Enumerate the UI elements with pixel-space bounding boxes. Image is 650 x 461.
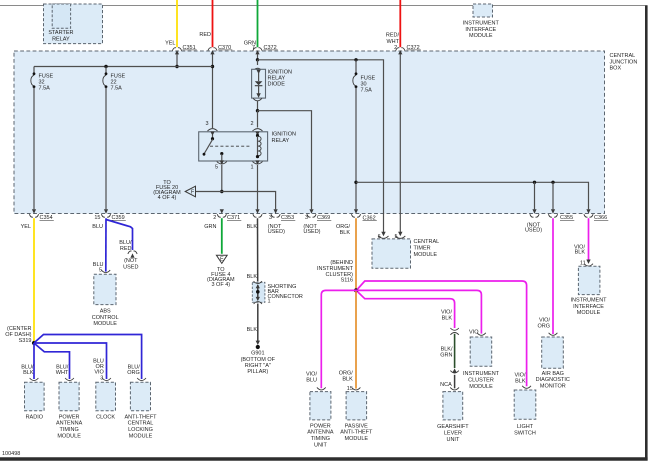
- wire BLU/WHT to power antenna timing module: [35, 344, 70, 379]
- svg-text:RADIO: RADIO: [26, 414, 44, 420]
- svg-text:CONNECTOR: CONNECTOR: [268, 294, 303, 300]
- instrument interface module (top): [463, 4, 500, 39]
- wire VIO/BLK to instrument interface module pin 11: [574, 218, 589, 260]
- svg-text:ANTENNA: ANTENNA: [56, 421, 83, 427]
- svg-text:USED): USED): [303, 229, 320, 235]
- svg-text:15: 15: [347, 386, 353, 392]
- svg-text:POWER: POWER: [310, 423, 331, 429]
- wire VIO/BLK S116 to light switch: [358, 281, 527, 386]
- svg-text:USED): USED): [525, 228, 542, 234]
- svg-text:INSTRUMENT: INSTRUMENT: [463, 21, 500, 27]
- wire YEL to S319: [33, 218, 35, 342]
- fuse F22: [103, 67, 126, 92]
- wire BLU OR VIO to clock: [34, 343, 107, 379]
- svg-text:BLK: BLK: [342, 376, 353, 382]
- svg-text:VIO/: VIO/: [441, 309, 452, 315]
- svg-text:USED): USED): [268, 229, 285, 235]
- wire from C351 to fuse bus: [176, 54, 178, 67]
- svg-text:MODULE: MODULE: [57, 433, 81, 439]
- wire C370 to relay pin 3: [212, 54, 214, 128]
- wire relay pin 1 to BLK connector: [257, 165, 259, 209]
- wire BLU to ABS: [105, 218, 107, 271]
- svg-text:3: 3: [305, 215, 308, 221]
- wire RED/WHT feed: [399, 0, 401, 47]
- svg-text:RELAY: RELAY: [272, 138, 290, 144]
- svg-text:TIMER: TIMER: [414, 246, 431, 252]
- svg-text:MODULE: MODULE: [469, 33, 493, 39]
- central timer module pins 6 and 5: [378, 232, 406, 240]
- svg-text:2: 2: [394, 45, 397, 51]
- svg-text:MODULE: MODULE: [93, 321, 117, 327]
- svg-text:7: 7: [252, 45, 255, 51]
- svg-text:ORG: ORG: [127, 370, 140, 376]
- svg-text:STARTER: STARTER: [48, 30, 73, 36]
- svg-text:MODULE: MODULE: [469, 384, 493, 390]
- wire BLK to shorting bar: [257, 218, 259, 281]
- svg-text:WHT: WHT: [386, 39, 399, 45]
- connector BLK ground pin: [247, 209, 263, 230]
- svg-text:UNIT: UNIT: [314, 442, 327, 448]
- node line2 origin: [354, 181, 357, 184]
- svg-text:S319: S319: [19, 338, 32, 344]
- wire relay pin 5 to junction: [221, 165, 223, 192]
- off-page arrow E to fuse 4: [207, 255, 235, 288]
- module gearshift lever unit: [437, 387, 469, 442]
- svg-text:AIR BAG: AIR BAG: [542, 371, 564, 377]
- svg-text:RED/: RED/: [386, 33, 400, 39]
- svg-text:BLK: BLK: [442, 316, 453, 322]
- wire NCA to gearshift lever unit: [454, 375, 456, 389]
- svg-text:BLK/: BLK/: [441, 346, 453, 352]
- svg-text:WHT: WHT: [56, 370, 69, 376]
- fuse F32: [31, 67, 54, 92]
- svg-text:INSTRUMENT: INSTRUMENT: [570, 298, 607, 304]
- svg-text:ABS: ABS: [100, 309, 111, 315]
- connector C355: [548, 209, 574, 221]
- relay K1 ignition relay: [199, 121, 296, 170]
- svg-text:VIO/: VIO/: [306, 372, 317, 378]
- svg-text:SWITCH: SWITCH: [514, 431, 536, 437]
- wire RED/WHT down to central timer module pin 5: [399, 54, 401, 233]
- svg-text:ANTI-THEFT: ANTI-THEFT: [124, 414, 157, 420]
- svg-text:BOX: BOX: [610, 66, 622, 72]
- svg-text:15: 15: [94, 215, 100, 221]
- module passive anti-theft module pin 15: [339, 370, 373, 442]
- connector C369 pin 3 not used: [303, 209, 331, 235]
- svg-text:RED: RED: [120, 246, 132, 252]
- module clock: [96, 378, 116, 420]
- wire C372 to diode node: [257, 54, 259, 60]
- svg-text:BLK: BLK: [340, 230, 351, 236]
- wire ORG/BLK to S116: [355, 218, 357, 290]
- node S319 center of dash: [5, 326, 36, 345]
- svg-text:DIAGNOSTIC: DIAGNOSTIC: [536, 377, 570, 383]
- svg-text:(NOT: (NOT: [124, 258, 138, 264]
- connector C370: [199, 32, 232, 55]
- svg-text:TIMING: TIMING: [59, 427, 78, 433]
- wire green node to fuse 30 / CTM pin 6 riser: [258, 60, 384, 233]
- wire VIO/ORG to air bag monitor: [537, 218, 553, 334]
- connector C371 pin 2: [204, 209, 241, 230]
- node not-used tap: [533, 181, 536, 184]
- svg-text:POWER: POWER: [59, 414, 80, 420]
- svg-text:CLOCK: CLOCK: [96, 414, 115, 420]
- svg-text:S116: S116: [341, 278, 353, 284]
- svg-text:CENTRAL: CENTRAL: [128, 421, 154, 427]
- svg-text:MODULE: MODULE: [129, 433, 153, 439]
- wire RED feed: [212, 0, 214, 47]
- svg-text:LEVER: LEVER: [444, 431, 462, 437]
- wire fuse 22 to C359: [105, 88, 107, 210]
- label BLU/BLK: [21, 364, 34, 376]
- svg-text:MODULE: MODULE: [577, 310, 601, 316]
- module power antenna timing unit: [307, 387, 334, 448]
- svg-text:VIO/: VIO/: [514, 372, 525, 378]
- wire VIO/BLU S116 to power antenna timing unit: [306, 290, 356, 388]
- wire BLU/ORG to anti-theft module: [35, 335, 142, 380]
- svg-text:ANTI-THEFT: ANTI-THEFT: [340, 430, 373, 436]
- svg-text:7.5A: 7.5A: [111, 86, 123, 92]
- svg-text:BLK: BLK: [23, 370, 34, 376]
- module central timer module: [372, 239, 439, 268]
- svg-text:BLK: BLK: [515, 378, 526, 384]
- svg-text:1: 1: [268, 299, 271, 305]
- svg-text:YEL: YEL: [21, 224, 31, 230]
- svg-text:CENTRAL: CENTRAL: [610, 53, 636, 59]
- svg-text:3 OF 4): 3 OF 4): [211, 282, 230, 288]
- wire BLU/RED stub not used: [106, 220, 138, 271]
- module radio: [25, 378, 45, 420]
- svg-text:2: 2: [250, 121, 253, 127]
- node red/bus junction: [211, 65, 214, 68]
- module ABS control module: [92, 262, 119, 327]
- svg-text:INTERFACE: INTERFACE: [465, 27, 496, 33]
- svg-text:MODULE: MODULE: [345, 436, 369, 442]
- connector C351: [165, 40, 197, 54]
- wire junction to C369: [258, 111, 312, 210]
- FRAME: [0, 5, 648, 7]
- wire C355 drop: [552, 182, 554, 209]
- wire BLK/GRN to NCA connector: [440, 334, 454, 368]
- svg-text:CLUSTER: CLUSTER: [468, 378, 494, 384]
- svg-text:YEL: YEL: [165, 40, 175, 46]
- ignition relay diode U-D1: [252, 60, 292, 101]
- svg-text:ANTENNA: ANTENNA: [307, 430, 334, 436]
- wire BLU/BLK to radio: [33, 343, 35, 379]
- svg-text:1: 1: [250, 165, 253, 171]
- connector C354: [21, 209, 54, 230]
- svg-text:RELAY: RELAY: [52, 36, 70, 42]
- central junction box: [14, 51, 605, 214]
- wire BLK to ground: [257, 304, 259, 342]
- svg-text:5: 5: [215, 165, 218, 171]
- connector C372 pin 7: [244, 40, 278, 54]
- connector C353 pin 3 not used: [268, 209, 296, 235]
- wire YEL battery feed: [176, 0, 178, 47]
- node C355 tap: [551, 181, 554, 184]
- wire diode to junction: [257, 101, 259, 111]
- svg-text:NCA: NCA: [440, 382, 452, 388]
- label BLU OR VIO pin 3: [93, 358, 104, 381]
- svg-text:USED: USED: [123, 264, 138, 270]
- module instrument interface module pin 11: [570, 260, 607, 317]
- module power antenna timing module: [56, 378, 83, 439]
- connector C362: [336, 209, 377, 236]
- node C351 drop junction: [175, 65, 178, 68]
- svg-text:GEARSHIFT: GEARSHIFT: [437, 424, 469, 430]
- starter relay: [44, 4, 103, 44]
- svg-text:ORG: ORG: [537, 323, 550, 329]
- svg-text:BLU/: BLU/: [119, 240, 132, 246]
- svg-text:GRN: GRN: [204, 224, 216, 230]
- shorting bar connector 1: [247, 274, 303, 305]
- svg-text:TIMING: TIMING: [311, 436, 330, 442]
- node green junction: [256, 58, 259, 61]
- wire fuse 30 to line2 and C362: [355, 88, 357, 210]
- svg-text:100498: 100498: [2, 451, 20, 457]
- svg-text:VIO/: VIO/: [539, 317, 550, 323]
- connector C372 pin 2: [386, 33, 421, 55]
- svg-text:BLK: BLK: [247, 327, 258, 333]
- svg-text:ORG/: ORG/: [336, 224, 351, 230]
- connector in-line vio/blk to blk/grn: [450, 328, 458, 335]
- wire not-used drop: [534, 182, 536, 209]
- wire junction to relay pin 2: [257, 111, 259, 128]
- svg-text:3: 3: [269, 215, 272, 221]
- wire fuse bus: [34, 66, 213, 68]
- svg-text:INSTRUMENT: INSTRUMENT: [463, 371, 500, 377]
- svg-text:PILLAR): PILLAR): [247, 369, 268, 375]
- wire GRN to fuse 4 arrow: [221, 218, 223, 254]
- wire branch to C353: [196, 192, 276, 210]
- connector C366: [584, 209, 608, 221]
- connector NCA: [440, 368, 459, 388]
- svg-text:ORG/: ORG/: [339, 370, 354, 376]
- svg-text:LOCKING: LOCKING: [128, 427, 153, 433]
- svg-text:IGNITION: IGNITION: [272, 132, 296, 138]
- node diode output junction: [256, 109, 259, 112]
- svg-text:7.5A: 7.5A: [361, 87, 373, 93]
- module air bag diagnostic monitor: [536, 333, 570, 390]
- ground G901: [241, 327, 276, 375]
- wire GRN feed: [257, 0, 259, 47]
- svg-text:GRN: GRN: [440, 353, 452, 359]
- wire VIO S116 to instrument cluster module: [356, 290, 481, 335]
- svg-text:2: 2: [213, 215, 216, 221]
- svg-text:LIGHT: LIGHT: [517, 424, 534, 430]
- svg-text:JUNCTION: JUNCTION: [610, 59, 638, 65]
- svg-text:4 OF 4): 4 OF 4): [158, 195, 177, 201]
- wire fuse 32 to C354: [33, 88, 35, 210]
- svg-text:UNIT: UNIT: [446, 437, 459, 443]
- node pin5 branch: [220, 190, 223, 193]
- wire VIO/BLK S116 to gearshift connector: [358, 292, 455, 328]
- svg-text:MONITOR: MONITOR: [540, 384, 566, 390]
- svg-text:3: 3: [205, 121, 208, 127]
- module anti-theft central locking module: [124, 378, 157, 439]
- label BLU/ORG: [127, 364, 140, 376]
- node fuse 22 tap: [104, 65, 107, 68]
- svg-text:7.5A: 7.5A: [39, 86, 51, 92]
- off-page arrow F to fuse 20: [153, 180, 195, 201]
- svg-text:BLK: BLK: [247, 224, 258, 230]
- svg-text:BLK: BLK: [575, 250, 586, 256]
- fuse F30: [353, 60, 376, 94]
- wire accessory bus line2: [356, 182, 589, 209]
- svg-text:DIODE: DIODE: [268, 82, 286, 88]
- wire ORG/BLK S116 to passive anti-theft: [355, 290, 357, 388]
- svg-text:PASSIVE: PASSIVE: [345, 423, 368, 429]
- label BLU/WHT: [56, 364, 69, 376]
- svg-text:G901: G901: [251, 351, 264, 357]
- svg-text:BLK: BLK: [247, 274, 258, 280]
- svg-text:CONTROL: CONTROL: [92, 315, 119, 321]
- svg-text:INTERFACE: INTERFACE: [573, 304, 604, 310]
- node fuse 30 tap: [354, 58, 357, 61]
- svg-text:BLU: BLU: [306, 378, 317, 384]
- svg-text:RED: RED: [199, 32, 211, 38]
- node S116 behind instrument cluster: [317, 260, 358, 292]
- module light switch: [514, 386, 536, 437]
- connector C359 pin 15: [92, 209, 126, 230]
- module instrument cluster module: [463, 333, 500, 390]
- svg-text:E: E: [220, 257, 224, 263]
- svg-text:VIO: VIO: [469, 330, 479, 336]
- svg-text:BLU: BLU: [92, 224, 103, 230]
- connector not used on accessory bus: [525, 209, 542, 233]
- svg-text:MODULE: MODULE: [414, 252, 438, 258]
- svg-text:CENTRAL: CENTRAL: [414, 239, 440, 245]
